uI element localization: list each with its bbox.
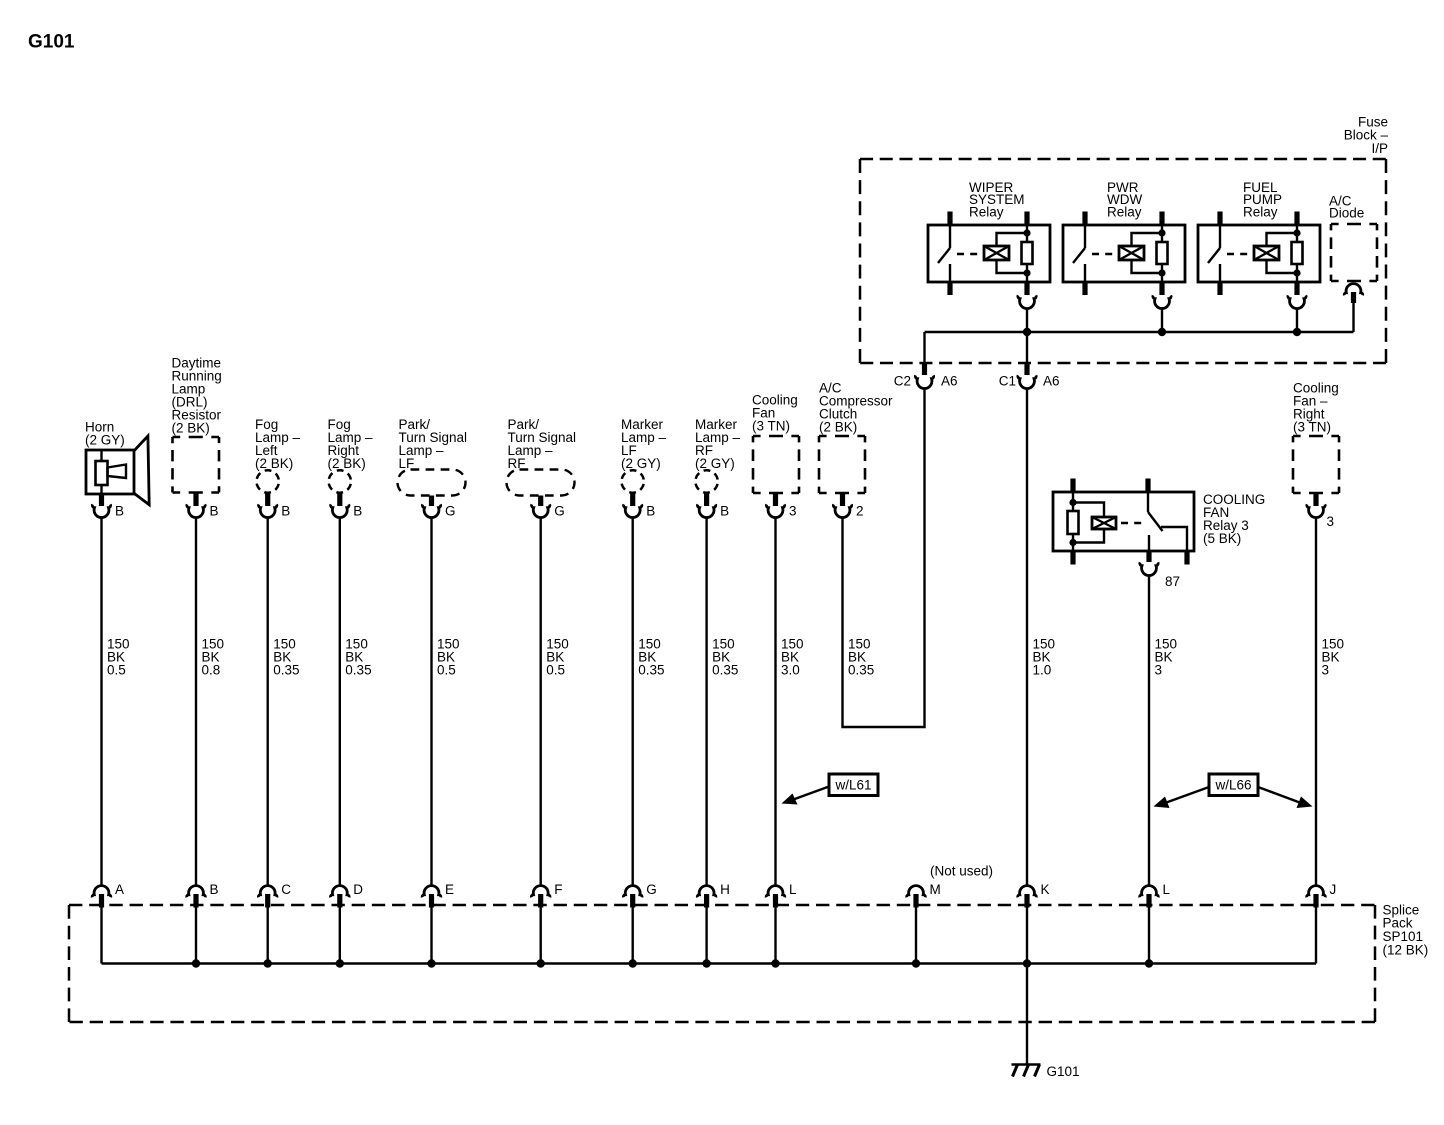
splice connector M (907, 886, 926, 898)
svg-text:(2 BK): (2 BK) (819, 419, 857, 434)
connector half at x=101.5 (92, 504, 110, 517)
terminal pin 3 stub at x=775.5 (773, 493, 778, 506)
connector C2 (915, 375, 933, 388)
wire from component at x=101.5 to splice pack (100, 518, 102, 886)
svg-text:(2 GY): (2 GY) (85, 432, 125, 447)
connector pin 87 below cooling fan relay (1140, 562, 1158, 575)
component Cooling Fan dashed box (753, 436, 799, 493)
svg-text:C: C (281, 882, 291, 897)
svg-text:B: B (646, 504, 655, 519)
connector half at x=706.6 (697, 504, 715, 517)
splice connector D (331, 886, 350, 898)
relay K1 WIPER SYSTEM Relay (928, 212, 1050, 296)
junction splice B (192, 959, 200, 967)
wire from A/C diode to bus (1352, 303, 1354, 332)
svg-text:Relay: Relay (969, 205, 1004, 220)
junction splice F (537, 959, 545, 967)
svg-text:G: G (554, 504, 565, 519)
label Fog Lamp - Right (2 BK) (328, 417, 374, 471)
label FUEL PUMP Relay (1243, 180, 1282, 220)
wire from component at x=540.7 to splice pack (540, 518, 542, 886)
splice connector F (531, 886, 550, 898)
svg-text:(12 BK): (12 BK) (1383, 943, 1429, 958)
component A/C Compressor Clutch dashed box (819, 436, 865, 493)
terminal pin B stub at x=101.5 (99, 494, 104, 507)
wire relay K3 output to bus (1296, 308, 1298, 333)
wire from component at x=632.7 to splice pack (632, 518, 634, 886)
terminal pin 2 stub at x=842.5 (840, 493, 845, 506)
svg-text:Relay: Relay (1243, 205, 1278, 220)
callout w/L66 (1154, 774, 1313, 808)
junction splice G (629, 959, 637, 967)
wire label 150 BK 0.5 (437, 637, 460, 678)
svg-text:0.5: 0.5 (546, 662, 565, 677)
wire label 150 BK 0.35 (273, 637, 299, 678)
connector below FUEL PUMP relay (1288, 295, 1306, 308)
connector half at x=540.7 (532, 504, 550, 517)
connector half at x=339.8 (331, 504, 349, 517)
svg-text:w/L66: w/L66 (1214, 778, 1251, 793)
component Park/Turn Signal Lamp RF dashed outline (507, 470, 575, 496)
svg-text:D: D (353, 882, 363, 897)
wire splice F to internal bus (540, 906, 542, 964)
svg-text:3: 3 (1327, 514, 1335, 529)
wire from component at x=196 to splice pack (195, 518, 197, 886)
svg-text:C1: C1 (999, 374, 1016, 389)
splice pack SP101 dashed outline (69, 905, 1375, 1022)
svg-text:3: 3 (1322, 662, 1330, 677)
svg-text:0.35: 0.35 (848, 662, 874, 677)
wire relay K2 output to bus (1161, 308, 1163, 333)
svg-text:L: L (1163, 882, 1171, 897)
wire label 150 BK 3 (1322, 637, 1345, 678)
wire label 150 BK 0.35 (712, 637, 738, 678)
wire splice K to internal bus (1026, 906, 1028, 964)
label A/C Diode (1329, 193, 1364, 220)
wire C1 drop inside fuse block (1026, 332, 1028, 364)
svg-text:87: 87 (1165, 574, 1180, 589)
terminal pin B stub at x=632.7 (630, 492, 635, 506)
label A/C Compressor Clutch (2 BK) (819, 380, 893, 434)
label Cooling Fan - Right (3 TN) (1293, 380, 1339, 434)
label Park/Turn Signal Lamp - LF (399, 417, 468, 471)
svg-text:(2 GY): (2 GY) (695, 456, 735, 471)
splice connector K (1018, 886, 1037, 898)
component Park/Turn Signal Lamp LF dashed outline (398, 470, 466, 496)
wire C2 drop inside fuse block (923, 332, 925, 364)
svg-text:C2: C2 (894, 374, 911, 389)
connector half at x=1316 (1307, 504, 1325, 517)
wire label 150 BK 3.0 (781, 637, 804, 678)
svg-text:B: B (720, 504, 729, 519)
junction splice E (427, 959, 435, 967)
wire splice L to internal bus (1148, 906, 1150, 964)
splice connector G (623, 886, 642, 898)
wire label 150 BK 0.35 (848, 637, 874, 678)
svg-text:Relay: Relay (1107, 205, 1142, 220)
svg-text:F: F (554, 882, 562, 897)
label Marker Lamp - RF (2 GY) (695, 417, 741, 471)
connector half at x=196 (187, 504, 205, 517)
label Splice Pack SP101 (12 BK) (1383, 902, 1429, 957)
svg-text:(3 TN): (3 TN) (1293, 419, 1331, 434)
svg-text:J: J (1330, 882, 1337, 897)
relay K2 PWR WDW Relay (1063, 212, 1185, 296)
connector below PWR WDW relay (1153, 295, 1171, 308)
label COOLING FAN Relay 3 (5 BK) (1203, 492, 1265, 546)
junction splice M (912, 959, 920, 967)
label Daytime Running Lamp (DRL) Resistor (2 BK) (172, 355, 222, 435)
junction splice L (1145, 959, 1153, 967)
connector half at x=842.5 (833, 504, 851, 517)
splice connector L (1140, 886, 1159, 898)
wire from component at x=267.7 to splice pack (267, 518, 269, 886)
svg-text:G101: G101 (1047, 1064, 1080, 1079)
terminal pin B stub at x=706.6 (704, 492, 709, 506)
svg-text:0.5: 0.5 (107, 662, 126, 677)
label PWR WDW Relay (1107, 180, 1142, 220)
junction splice C (264, 959, 272, 967)
svg-text:L: L (789, 882, 797, 897)
svg-text:(3 TN): (3 TN) (752, 418, 790, 433)
splice connector B (187, 886, 206, 898)
splice connector L (766, 886, 785, 898)
svg-text:0.8: 0.8 (202, 662, 221, 677)
wire label 150 BK 0.5 (107, 637, 130, 678)
connector half at x=775.5 (766, 504, 784, 517)
splice connector J (1307, 886, 1326, 898)
junction splice K (1023, 959, 1031, 967)
wire splice L to internal bus (774, 906, 776, 964)
wire splice pack internal bus (102, 962, 1317, 964)
wire from component at x=431.5 to splice pack (430, 518, 432, 886)
splice connector C (258, 886, 277, 898)
connector half at x=632.7 (624, 504, 642, 517)
terminal pin B stub at x=339.8 (337, 492, 342, 506)
svg-text:B: B (210, 882, 219, 897)
diode D1 A/C Diode dashed box (1331, 224, 1377, 281)
component Fog Lamp Right dashed circle (329, 470, 351, 492)
label Marker Lamp - LF (2 GY) (621, 417, 667, 471)
connector below WIPER SYSTEM relay (1018, 295, 1036, 308)
svg-text:A6: A6 (941, 374, 958, 389)
svg-text:(2 BK): (2 BK) (255, 456, 293, 471)
label Cooling Fan (3 TN) (752, 392, 798, 433)
svg-text:B: B (210, 504, 219, 519)
svg-text:B: B (281, 504, 290, 519)
component Marker Lamp LF dashed circle (622, 470, 644, 492)
component horn symbol (86, 436, 149, 505)
wire splice C to internal bus (267, 906, 269, 964)
label Park/Turn Signal Lamp - RF (508, 417, 577, 471)
svg-text:B: B (115, 504, 124, 519)
wire C1 to splice K (1026, 389, 1028, 886)
connector half at A/C diode (1344, 284, 1363, 296)
component Marker Lamp RF dashed circle (695, 470, 717, 492)
junction splice D (336, 959, 344, 967)
junction splice H (702, 959, 710, 967)
wire from component at x=706.6 to splice pack (705, 518, 707, 886)
wire relay K1 output to bus (1026, 308, 1028, 333)
wire splice E to internal bus (430, 906, 432, 964)
svg-text:w/L61: w/L61 (834, 778, 871, 793)
svg-text:(2 GY): (2 GY) (621, 456, 661, 471)
ground G101 symbol (1012, 1065, 1041, 1077)
component Fog Lamp Left dashed circle (257, 470, 279, 492)
wire label 150 BK 0.8 (202, 637, 225, 678)
terminal pin B stub at x=196 (193, 493, 198, 507)
svg-text:RF: RF (508, 456, 526, 471)
svg-text:H: H (720, 882, 730, 897)
svg-text:0.5: 0.5 (437, 662, 456, 677)
terminal pin B stub at x=267.7 (265, 492, 270, 506)
junction at K2 output (1158, 328, 1166, 336)
wire splice G to internal bus (632, 906, 634, 964)
svg-text:0.35: 0.35 (345, 662, 371, 677)
svg-text:LF: LF (399, 456, 415, 471)
svg-text:(2 BK): (2 BK) (328, 456, 366, 471)
svg-text:0.35: 0.35 (273, 662, 299, 677)
fuse block I/P label (1344, 114, 1389, 156)
wire splice A to internal bus (100, 906, 102, 964)
label Fog Lamp - Left (2 BK) (255, 417, 301, 471)
svg-text:A6: A6 (1043, 374, 1060, 389)
component DRL resistor dashed box (173, 437, 220, 493)
relay K3 FUEL PUMP Relay (1198, 212, 1320, 296)
svg-text:K: K (1041, 882, 1050, 897)
svg-text:M: M (930, 882, 941, 897)
svg-text:I/P: I/P (1371, 141, 1388, 156)
svg-text:A: A (115, 882, 124, 897)
wire ground bus inside fuse block (925, 331, 1354, 333)
wire splice J to internal bus (1315, 906, 1317, 964)
svg-text:0.35: 0.35 (638, 662, 664, 677)
wire splice H to internal bus (705, 906, 707, 964)
label Horn (2 GY) (85, 419, 125, 447)
wire cooling fan right to splice J (1315, 518, 1317, 886)
connector half at x=431.5 (422, 504, 440, 517)
splice connector E (422, 886, 441, 898)
wire cooling fan relay 87 to splice L (1148, 577, 1150, 886)
svg-text:G101: G101 (28, 32, 75, 53)
svg-text:3: 3 (1155, 662, 1163, 677)
svg-text:G: G (445, 504, 456, 519)
splice connector H (697, 886, 716, 898)
svg-text:(5 BK): (5 BK) (1203, 531, 1241, 546)
svg-text:2: 2 (856, 504, 864, 519)
svg-text:Diode: Diode (1329, 206, 1364, 221)
svg-text:G: G (646, 882, 657, 897)
junction splice L (771, 959, 779, 967)
svg-text:3.0: 3.0 (781, 662, 800, 677)
svg-text:(Not used): (Not used) (930, 864, 993, 879)
callout w/L61 (782, 774, 879, 805)
junction at K1 output (1023, 328, 1031, 336)
terminal pin G stub at x=540.7 (538, 496, 543, 507)
splice connector A (92, 886, 111, 898)
wire A/C compressor clutch to connector C2 (843, 389, 925, 727)
svg-text:0.35: 0.35 (712, 662, 738, 677)
svg-text:E: E (445, 882, 454, 897)
wire label 150 BK 0.35 (638, 637, 664, 678)
terminal pin G stub at x=431.5 (429, 496, 434, 507)
wire from component at x=339.8 to splice pack (339, 518, 341, 886)
fuse block dashed outline (860, 159, 1386, 363)
svg-text:(2 BK): (2 BK) (172, 420, 210, 435)
wire splice D to internal bus (339, 906, 341, 964)
connector half at x=267.7 (259, 504, 277, 517)
svg-text:1.0: 1.0 (1033, 662, 1052, 677)
svg-text:3: 3 (789, 504, 797, 519)
terminal pin 3 stub at x=1316 (1313, 493, 1318, 506)
wire label 150 BK 0.35 (345, 637, 371, 678)
label WIPER SYSTEM Relay (969, 180, 1025, 220)
junction at K3 output (1293, 328, 1301, 336)
wire splice M to internal bus (915, 906, 917, 964)
wire splice B to internal bus (195, 906, 197, 964)
terminal pin C2 (922, 362, 927, 375)
svg-text:B: B (353, 504, 362, 519)
wire splice K to ground G101 (1026, 964, 1028, 1065)
relay K4 COOLING FAN Relay 3 (1053, 479, 1194, 565)
wire label 150 BK 1.0 (1033, 637, 1056, 678)
wire label 150 BK 0.5 (546, 637, 569, 678)
wire from component at x=775.5 to splice pack (774, 518, 776, 886)
terminal pin C1 (1024, 362, 1029, 375)
wire label 150 BK 3 (1155, 637, 1178, 678)
connector C1 (1018, 375, 1036, 388)
component Cooling Fan Right dashed box (1293, 436, 1339, 493)
